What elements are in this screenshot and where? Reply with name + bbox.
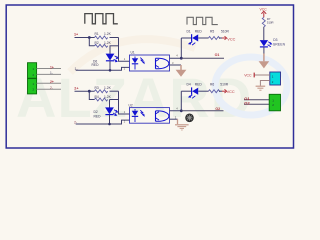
junction D6 cathode [109,69,112,72]
watermark [16,39,287,129]
wire net 1+ [75,37,95,39]
wire U2 pin3 [170,118,178,120]
junction node A2 left [88,90,91,93]
ground GND bars ch2 [175,125,189,130]
svg-text:GREEN: GREEN [273,43,286,47]
wire R4 branch left [89,91,94,99]
wire net 1- [76,67,130,70]
svg-text:U1: U1 [131,51,135,55]
svg-text:RED: RED [195,83,203,87]
wire J3 pin2 to GND [260,81,269,86]
ground GND arrow D3 [263,54,265,62]
resistor R7 [262,17,265,27]
svg-text:VCC: VCC [227,37,235,41]
svg-text:O2: O2 [244,101,250,106]
LED D2 [105,100,117,125]
optocoupler U1 [130,55,170,71]
wire O2 [181,110,223,112]
svg-text:510R: 510R [267,21,274,25]
svg-text:U2: U2 [129,103,133,107]
LED D1 [181,34,208,45]
connector J4 output green [269,94,280,111]
resistor R2 [95,44,119,47]
svg-text:VCC: VCC [227,90,235,94]
connector J3 VCC teal [270,72,281,85]
ground GND bars J3 [256,86,266,90]
svg-text:R6: R6 [210,83,214,87]
svg-text:510R: 510R [220,83,229,87]
wire U1 pin3 [170,64,182,66]
svg-text:1.2K: 1.2K [104,95,112,99]
svg-text:VCC: VCC [260,8,268,12]
wire O1 to J4 [244,99,269,101]
svg-text:1+: 1+ [74,33,78,37]
wire O1 [181,57,224,59]
wire J1 pin2 stub [37,73,61,75]
svg-text:R4: R4 [95,95,99,99]
svg-text:D6: D6 [93,59,97,63]
junction D2 cathode [108,123,111,126]
optocoupler U2 [130,108,170,124]
svg-text:O1: O1 [215,53,220,57]
power VCC ch1 [222,36,227,40]
wire O2 to J4 [244,103,269,105]
svg-text:RED: RED [195,29,203,33]
power VCC ch2 [222,89,227,93]
wire J2 pin2 stub [37,88,61,90]
wire node A1 to U1 pin1 [119,38,130,62]
wire J3 pin1 to VCC [254,74,269,76]
LED D6 [106,46,118,71]
svg-text:O2: O2 [215,107,220,111]
wire net 2- [76,120,130,124]
svg-text:1.2K: 1.2K [104,86,112,90]
LED D3 [260,40,272,53]
junction node A1 left [88,36,91,39]
junction pin4/O2 [180,109,183,112]
wire R7 to D3 [263,27,265,40]
svg-text:RED: RED [94,114,102,118]
waveform annotation W1 [85,14,118,24]
svg-text:D2: D2 [94,110,98,114]
svg-text:D1: D1 [187,29,191,33]
wire net 2+ [75,90,95,92]
svg-text:R2: R2 [95,41,99,45]
svg-text:2+: 2+ [74,86,78,90]
waveform annotation W2 [187,17,218,24]
svg-text:1-: 1- [50,71,53,75]
svg-text:VCC: VCC [244,73,252,77]
wire R2 branch left [89,38,94,46]
svg-text:R1: R1 [95,32,99,36]
svg-text:R5: R5 [210,29,214,33]
svg-text:R3: R3 [95,86,99,90]
power VCC J3 [253,73,255,78]
svg-text:1.2K: 1.2K [104,41,112,45]
wire J2 pin1 stub [37,82,61,84]
resistor R1 [95,36,119,39]
resistor R5 [209,37,221,40]
power VCC top right [261,11,266,17]
svg-text:510R: 510R [221,29,230,33]
connector J1 input green [28,63,37,78]
ground GND arrow ch1 [176,70,187,77]
svg-text:2+: 2+ [50,80,54,84]
mounting hole H1 [185,114,194,123]
wire U1 pin4 to node O1 [170,38,182,58]
wire U2 pin4 to node O2 [170,91,182,111]
wire node A2 to U2 pin1 [119,91,130,114]
svg-text:RED: RED [92,63,100,67]
connector J2 input green [28,79,37,94]
resistor R6 [209,90,221,93]
wire J1 pin1 stub [37,68,61,70]
svg-text:1.2K: 1.2K [104,32,112,36]
LED D4 [181,87,208,98]
resistor R3 [95,90,119,93]
svg-text:2-: 2- [50,86,53,90]
svg-text:1+: 1+ [50,65,54,69]
resistor R4 [95,98,119,101]
svg-text:D3: D3 [273,38,277,42]
svg-text:D4: D4 [187,83,191,87]
junction pin4/O1 [180,57,183,60]
